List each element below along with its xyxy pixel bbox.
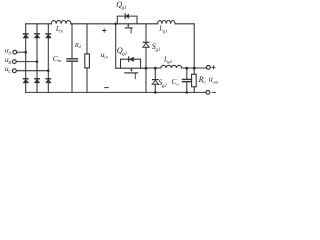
wire feed vertical to Qg2: [115, 24, 117, 68]
node output plus sign: [212, 66, 215, 69]
wire bridge leg A: [25, 24, 27, 93]
terminal output minus: [206, 91, 210, 95]
node Ro top junction: [193, 67, 196, 70]
inductor Lg1: [158, 20, 175, 23]
svg-text:g1: g1: [122, 6, 127, 11]
terminal uB: [12, 60, 16, 64]
diode Sg1: [143, 41, 149, 43]
diode of Qg1: [124, 14, 126, 19]
wire bridge leg B: [36, 24, 38, 93]
node Q-feed tap on top rail: [114, 23, 117, 26]
diode of Qg2: [128, 57, 130, 62]
diode D3 (top, leg B): [34, 34, 40, 38]
wire bottom rail: [26, 91, 206, 93]
node Sg2 bottom junction: [154, 91, 157, 94]
node phase A junction: [24, 51, 27, 54]
node output minus sign: [212, 91, 215, 93]
svg-text:g2: g2: [122, 52, 127, 57]
node Co bottom junction: [186, 91, 189, 94]
svg-text:C: C: [8, 69, 12, 74]
node phase B junction: [36, 60, 39, 63]
wire phase C: [16, 70, 48, 72]
transistor Qg2 mosfet glyph: [130, 68, 132, 70]
svg-text:in: in: [58, 58, 62, 63]
svg-text:out: out: [213, 79, 219, 84]
wire output line (J2 to output terminal): [146, 67, 206, 69]
diode Sg2: [153, 79, 159, 81]
resistor Ro: [192, 74, 197, 87]
svg-text:g2: g2: [162, 84, 167, 89]
svg-text:in: in: [104, 55, 108, 60]
node Co top junction: [185, 67, 188, 70]
diode D5 (top, leg C): [46, 34, 52, 38]
svg-text:g1: g1: [163, 28, 168, 33]
wire Qg2 channel: [116, 67, 146, 69]
svg-text:g1: g1: [156, 48, 161, 53]
node uin plus sign: [103, 29, 106, 32]
wire bridge leg C: [47, 24, 49, 93]
node J2 junction: [145, 67, 148, 70]
transistor Qg1 mosfet glyph: [127, 24, 129, 26]
inductor Lin: [51, 20, 71, 23]
resistor Rd branch wire: [86, 24, 88, 93]
node Sg2 tap: [154, 67, 157, 70]
diode D2 (bottom, leg C): [46, 79, 52, 83]
wire phase B: [16, 61, 37, 63]
node phase C junction: [47, 69, 50, 72]
svg-text:o: o: [203, 80, 206, 85]
diode D4 (bottom, leg A): [23, 79, 29, 83]
inductor Lg2: [161, 65, 182, 68]
terminal uA: [13, 50, 17, 54]
wire Sg2 branch: [154, 68, 156, 92]
terminal uC: [13, 69, 17, 73]
capacitor Cin: [71, 24, 73, 58]
svg-text:g2: g2: [167, 59, 172, 64]
wire phase A: [17, 51, 26, 53]
node uin minus sign: [105, 87, 109, 89]
wire top rail: [26, 23, 195, 25]
transistor Qg1 body-diode loop: [117, 16, 137, 24]
resistor Rd: [85, 54, 90, 68]
wire S-line vertical: [145, 24, 147, 93]
transistor Qg2 body-diode loop: [121, 59, 141, 68]
capacitor Co: [186, 68, 188, 79]
svg-text:in: in: [59, 29, 63, 34]
diode D1 (top, leg A): [23, 34, 29, 38]
svg-text:o: o: [176, 82, 179, 87]
diode D6 (bottom, leg B): [34, 79, 40, 83]
terminal output plus: [207, 66, 211, 70]
svg-text:d: d: [79, 44, 82, 49]
wire right vertical (load branch from top rail): [193, 24, 195, 93]
